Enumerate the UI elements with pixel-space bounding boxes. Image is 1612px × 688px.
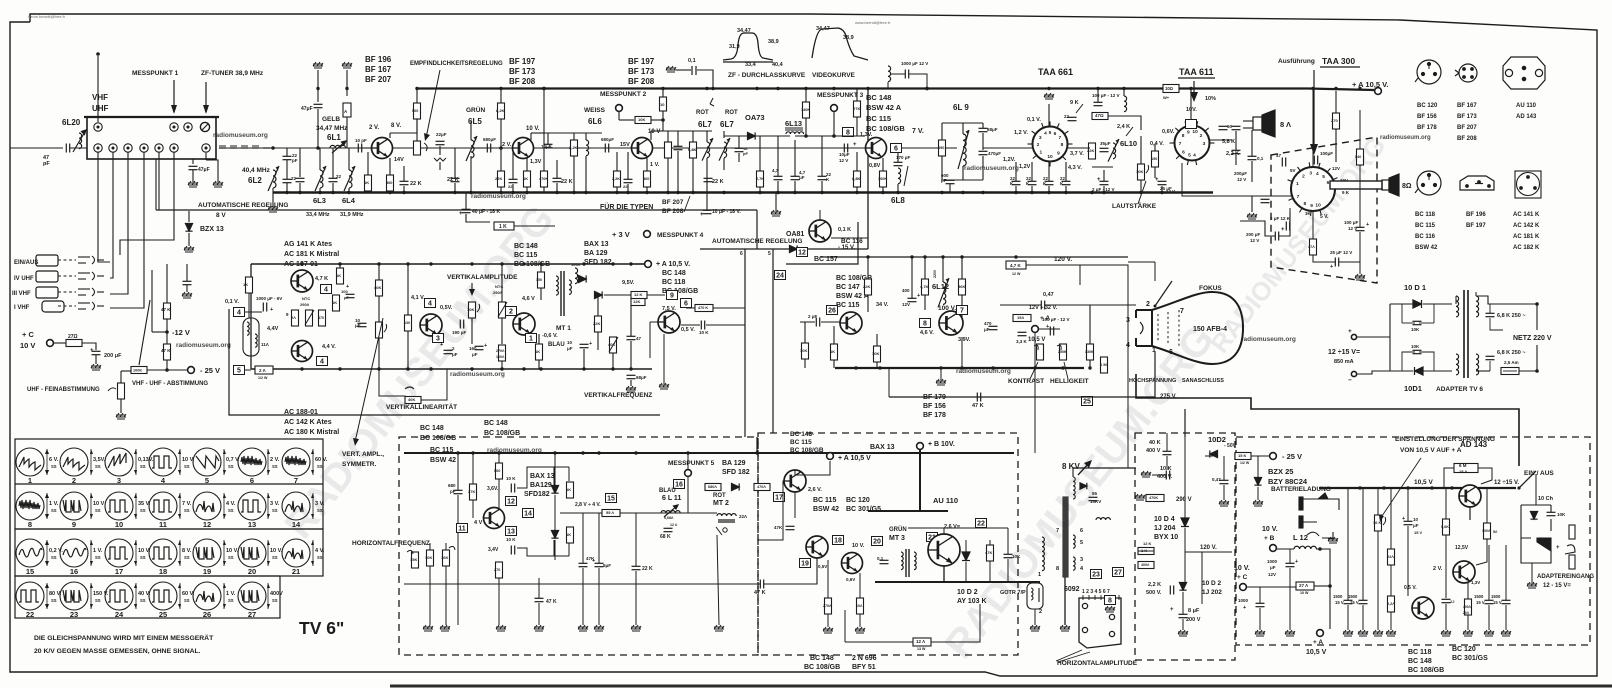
svg-text:560: 560 xyxy=(643,177,649,181)
svg-text:6L 9: 6L 9 xyxy=(953,103,969,112)
svg-text:AC 181 K Mistral: AC 181 K Mistral xyxy=(284,251,339,258)
capacitor 1000uF L12 xyxy=(1286,563,1295,566)
svg-text:0,1: 0,1 xyxy=(688,58,696,64)
arrow 8KV xyxy=(1078,462,1090,475)
svg-text:pF: pF xyxy=(43,161,50,167)
svg-text:-12 V: -12 V xyxy=(172,328,190,337)
svg-text:SS: SS xyxy=(140,464,146,469)
coil 1000uF feed xyxy=(888,66,891,82)
svg-text:SS: SS xyxy=(272,508,278,513)
wire flyback gnd xyxy=(1064,577,1066,625)
svg-text:5Λ: 5Λ xyxy=(1493,530,1498,534)
ground reg a xyxy=(1219,500,1229,506)
wire cC a xyxy=(1259,587,1261,603)
svg-text:100 μF - 12 V: 100 μF - 12 V xyxy=(1092,93,1120,98)
svg-text:+: + xyxy=(589,341,592,347)
svg-text:1500: 1500 xyxy=(1348,594,1358,599)
capacitor 2.2K eht xyxy=(1170,586,1173,595)
wire taa611 r2 xyxy=(1235,131,1237,150)
ground tuning pot xyxy=(116,413,126,419)
resistor 2 ohm vert rail xyxy=(255,366,273,374)
svg-text:18: 18 xyxy=(834,538,842,545)
battery charging contact symbol xyxy=(1299,493,1339,538)
ground hos x583 xyxy=(578,625,588,631)
svg-text:275 V.: 275 V. xyxy=(1160,394,1177,400)
transistor Q13 hos buffer xyxy=(784,470,806,492)
svg-text:BC 115: BC 115 xyxy=(1415,223,1436,229)
svg-text:22: 22 xyxy=(336,174,342,179)
svg-text:100Λ: 100Λ xyxy=(496,355,505,359)
capacitor 100uF taa300 xyxy=(1314,156,1317,165)
wire cap reg b x1506 xyxy=(1505,605,1507,630)
wire 22 reg a xyxy=(1390,488,1392,549)
wire 6l7 b xyxy=(667,158,669,192)
svg-text:L 12: L 12 xyxy=(1293,533,1308,542)
wire taa300 r dn xyxy=(1335,129,1337,162)
svg-text:25 μF 12 V: 25 μF 12 V xyxy=(1330,250,1352,255)
wire f3 xyxy=(332,148,334,178)
wire diode loop t1 xyxy=(553,467,555,485)
svg-text:BC 148: BC 148 xyxy=(1408,658,1432,665)
resistor 10K vo xyxy=(874,346,881,362)
deflection coil socket xyxy=(1079,598,1121,648)
resistor 270 hos xyxy=(496,562,503,578)
svg-text:4: 4 xyxy=(320,359,324,366)
svg-text:10Ω: 10Ω xyxy=(1165,86,1174,91)
svg-text:GRÜN: GRÜN xyxy=(466,105,485,114)
variable coil 6L12 peaking xyxy=(938,278,949,307)
wire 150 b xyxy=(1154,167,1156,178)
wire taa611 r3 xyxy=(1235,155,1237,165)
svg-text:HORIZONTALAMPLITUDE: HORIZONTALAMPLITUDE xyxy=(1057,660,1138,667)
wire 6l5 up xyxy=(470,121,472,140)
svg-text:7 V.: 7 V. xyxy=(182,501,192,507)
svg-text:UHF: UHF xyxy=(92,104,109,113)
wire reg d xyxy=(1223,485,1225,500)
wire 120v drop xyxy=(1079,265,1081,285)
IC U3 TAA300 xyxy=(1288,162,1338,216)
svg-text:BC 118: BC 118 xyxy=(662,279,685,286)
svg-text:400V: 400V xyxy=(270,591,283,597)
svg-text:7: 7 xyxy=(1058,135,1061,141)
coil 100 mt1 xyxy=(575,268,578,284)
wire 6l8 gnd xyxy=(897,184,899,192)
wire hos m d xyxy=(598,568,600,625)
transistor Q6 AC141K vert osc xyxy=(291,270,313,292)
arrow taa300 xyxy=(1313,70,1315,150)
wire xfmr top xyxy=(1475,292,1477,296)
wire taacap2 a xyxy=(1031,162,1033,181)
node mp2 xyxy=(661,118,665,122)
svg-text:10μF: 10μF xyxy=(839,152,850,157)
wire mt1 a xyxy=(540,264,542,272)
capacitor 3.3K contrast xyxy=(1018,332,1027,335)
capacitor 22K det xyxy=(818,176,827,179)
svg-text:7: 7 xyxy=(1056,528,1059,534)
svg-text:+: + xyxy=(917,293,920,299)
wire reg b xyxy=(1251,455,1269,457)
resistor 1.6 q3out xyxy=(665,142,672,158)
svg-text:MT 2: MT 2 xyxy=(713,500,729,507)
wire 27ohm to cap xyxy=(82,343,96,350)
wire 8k2 down xyxy=(500,119,502,148)
wire hos out to lineout xyxy=(758,481,784,540)
wire q3 coll rail xyxy=(651,130,663,132)
resistor 2ohm vert xyxy=(292,310,299,326)
wire c ifa2 xyxy=(454,183,456,192)
wire sec top xyxy=(1455,296,1457,304)
resistor 2.2K q3 xyxy=(614,171,621,187)
switch button I VHF xyxy=(42,301,64,312)
svg-text:10 Ch: 10 Ch xyxy=(1538,496,1554,502)
pin 12 hos xyxy=(506,497,517,506)
svg-text:8: 8 xyxy=(1108,598,1112,605)
pot hook hfreq b xyxy=(449,546,455,550)
wire loop left xyxy=(844,610,846,642)
svg-text:27K: 27K xyxy=(468,489,475,494)
svg-text:BC 115: BC 115 xyxy=(836,302,859,309)
wire vlin2 xyxy=(379,338,405,400)
rail vert bottom xyxy=(251,368,652,370)
terminal messpunkt 2 xyxy=(616,105,623,112)
svg-text:270Λ: 270Λ xyxy=(496,349,505,353)
bus AGC line xyxy=(156,209,757,211)
svg-text:4: 4 xyxy=(1044,131,1047,137)
svg-text:15 V: 15 V xyxy=(1476,600,1485,605)
wire 47k chain xyxy=(166,264,168,303)
svg-text:MT 1: MT 1 xyxy=(556,325,571,332)
svg-text:10: 10 xyxy=(1315,203,1321,209)
svg-text:EMPFINDLICHKEITSREGELUNG: EMPFINDLICHKEITSREGELUNG xyxy=(410,61,503,67)
wire agc vert drop xyxy=(756,210,758,249)
svg-text:8 KV: 8 KV xyxy=(1062,462,1080,471)
chassis hatch TAA661 xyxy=(1044,93,1054,99)
svg-text:100 μF: 100 μF xyxy=(1344,220,1359,225)
wire cC b xyxy=(1259,608,1261,630)
wire det cf xyxy=(821,181,823,192)
resistor 15K contrast xyxy=(1013,315,1031,322)
svg-text:330K: 330K xyxy=(1085,350,1094,354)
svg-text:17: 17 xyxy=(115,567,123,576)
svg-text:BF 197: BF 197 xyxy=(1466,223,1486,229)
rail vert top xyxy=(251,263,634,265)
wire gain cap down xyxy=(439,146,441,155)
wire tuner out stub xyxy=(205,153,207,160)
wire s2 a xyxy=(547,133,549,144)
wire 560top down xyxy=(416,119,418,148)
wire 1k q2 b xyxy=(526,187,528,192)
wire pin4 xyxy=(245,311,262,313)
potentiometer 10K vamp xyxy=(469,302,476,318)
svg-text:BYX 10: BYX 10 xyxy=(1154,534,1178,541)
svg-text:8 μF: 8 μF xyxy=(1188,608,1200,614)
ground 270 lo xyxy=(823,627,833,633)
svg-text:6L10: 6L10 xyxy=(1120,139,1137,148)
wire agc r xyxy=(514,225,555,227)
svg-text:40,4 MHz: 40,4 MHz xyxy=(242,167,271,174)
wire filt2 xyxy=(299,183,301,192)
svg-text:6 L 11: 6 L 11 xyxy=(662,495,681,502)
svg-text:+: + xyxy=(1097,177,1101,183)
svg-text:10 pF: 10 pF xyxy=(355,138,367,143)
svg-text:BF 197: BF 197 xyxy=(509,57,536,66)
svg-text:12 V: 12 V xyxy=(1166,189,1175,194)
wire vlin3 xyxy=(421,369,447,400)
wire spk f xyxy=(1240,221,1275,236)
svg-text:9 K: 9 K xyxy=(1342,190,1350,195)
wire c ifa xyxy=(454,148,456,178)
node a2 xyxy=(316,146,320,150)
wire coilfeed c xyxy=(909,74,927,88)
resistor 560 q3 xyxy=(644,171,651,187)
capacitor coupling spk xyxy=(1248,156,1257,159)
svg-text:560: 560 xyxy=(386,181,392,185)
svg-text:4,6 V.: 4,6 V. xyxy=(920,330,934,336)
wire vo i xyxy=(924,295,926,310)
svg-text:10 D 2: 10 D 2 xyxy=(1202,580,1222,587)
capacitor 470uF contrast xyxy=(989,326,998,329)
arrowhead taa611 xyxy=(1190,92,1198,102)
svg-text:BSW 42 A: BSW 42 A xyxy=(866,103,902,112)
wire agc vert drop2 xyxy=(744,249,746,437)
wire 10d4 c xyxy=(1184,552,1186,582)
wire sec right top xyxy=(1476,296,1537,304)
potentiometer 10K volume xyxy=(1138,164,1145,180)
wire lo top3 xyxy=(1007,528,1009,540)
switch button III VHF xyxy=(36,287,58,298)
capacitor 22uF gain xyxy=(436,141,445,144)
wire cap to gnd xyxy=(95,355,97,364)
wire 25uf b xyxy=(1161,186,1163,192)
waveform 2 oscillogram xyxy=(60,448,106,485)
svg-text:14V: 14V xyxy=(394,157,404,163)
svg-text:15 A: 15 A xyxy=(1459,469,1467,474)
coil EHT filter xyxy=(1096,518,1110,520)
diode 10D2 reg xyxy=(1210,450,1218,457)
resistor 100 reg xyxy=(1484,523,1491,539)
wire hfreq c xyxy=(445,543,447,550)
pot hook contrast xyxy=(1034,345,1038,350)
wire fokus rail xyxy=(1128,261,1155,263)
potentiometer 1K gain xyxy=(414,141,421,155)
resistor 470K q2 xyxy=(541,171,548,187)
svg-text:6: 6 xyxy=(250,476,254,485)
wire 6l13 out xyxy=(795,135,834,137)
resistor 47K lower xyxy=(164,344,171,360)
wire q3 em2 xyxy=(646,187,648,192)
svg-text:AD 143: AD 143 xyxy=(1460,440,1488,449)
wire 6l7coila up xyxy=(706,131,708,142)
svg-text:BF 208: BF 208 xyxy=(662,208,684,215)
terminal +B bottom xyxy=(917,443,924,450)
resistor 470K sync xyxy=(695,305,713,312)
svg-text:60 V.: 60 V. xyxy=(315,457,328,463)
channel switch assembly xyxy=(58,252,110,314)
svg-text:6: 6 xyxy=(1169,349,1173,356)
svg-text:270: 270 xyxy=(1331,118,1338,123)
wire vo h xyxy=(804,359,806,368)
wire sync e xyxy=(681,324,700,326)
capacitor 1500uF reg x1506 xyxy=(1502,600,1511,603)
resistor 560 q1 xyxy=(387,175,394,191)
svg-text:150 V.: 150 V. xyxy=(93,591,109,597)
svg-text:- 15 V.: - 15 V. xyxy=(838,245,855,251)
wire agc cap up xyxy=(186,264,188,281)
svg-text:4,6 V: 4,6 V xyxy=(522,296,535,302)
svg-text:3: 3 xyxy=(1080,557,1083,563)
wire 6l7coilb up xyxy=(723,131,725,138)
wire vert out em xyxy=(538,334,540,344)
wire mains right a xyxy=(1536,304,1538,330)
pointer helligkeit xyxy=(1064,362,1068,379)
transistor Q20 reg driver xyxy=(1412,597,1434,619)
ground 22 reg xyxy=(1386,630,1396,636)
svg-text:290 V: 290 V xyxy=(1176,497,1192,503)
svg-text:BF 167: BF 167 xyxy=(1457,103,1477,109)
terminal +A bottom xyxy=(827,453,834,460)
svg-text:160: 160 xyxy=(469,346,477,351)
wire ntc b xyxy=(501,318,503,344)
svg-text:1 V.: 1 V. xyxy=(650,162,660,168)
resistor 10K vo input xyxy=(802,343,809,359)
wire pot down xyxy=(120,399,122,413)
svg-text:10: 10 xyxy=(1192,129,1198,135)
waveform 3 oscillogram xyxy=(105,448,154,485)
resistor 47 ohm taa xyxy=(1092,113,1108,120)
svg-text:12: 12 xyxy=(798,250,806,257)
svg-text:6: 6 xyxy=(1327,180,1330,186)
wire eht d xyxy=(1182,592,1184,614)
svg-text:5: 5 xyxy=(1188,153,1191,159)
wire taacap4 b xyxy=(1065,186,1067,192)
svg-text:SFD 182: SFD 182 xyxy=(722,469,750,476)
wire 47b up xyxy=(1312,211,1314,239)
svg-text:4: 4 xyxy=(324,287,328,294)
svg-text:25: 25 xyxy=(1083,399,1091,406)
svg-text:KONTRAST: KONTRAST xyxy=(1008,378,1044,385)
wire zener feed xyxy=(159,209,189,211)
wire coilfeed xyxy=(887,82,889,88)
diode OA81 xyxy=(790,245,798,252)
wire 470k down xyxy=(543,187,545,192)
wire xfmr bot xyxy=(250,356,252,369)
wire 120V to eht xyxy=(1128,433,1136,468)
ground BZX13 xyxy=(184,246,194,252)
capacitor 22K hos xyxy=(632,566,641,569)
svg-text:BC 147: BC 147 xyxy=(836,284,860,291)
svg-text:2 V.: 2 V. xyxy=(502,142,512,148)
capacitor 47K hos left xyxy=(535,598,544,601)
wire sync base b xyxy=(649,322,651,358)
wire q13 a xyxy=(794,492,796,518)
wire 2uf b xyxy=(1103,186,1105,192)
wire 22 reg c xyxy=(1390,612,1392,630)
waveform 14 oscillogram xyxy=(282,492,325,529)
transistor Q17 AU110 line output xyxy=(928,534,960,566)
wire vo g xyxy=(804,322,806,343)
arrowhead einstellung xyxy=(1379,515,1384,522)
wire lo top xyxy=(943,528,945,534)
resistor 22K q2 xyxy=(498,171,505,187)
svg-text:3,3 K: 3,3 K xyxy=(1016,339,1028,344)
svg-text:22 K: 22 K xyxy=(642,566,653,572)
svg-text:BC 120: BC 120 xyxy=(1417,103,1438,109)
wire 100K to -25V xyxy=(147,369,187,371)
svg-text:22Λ: 22Λ xyxy=(739,514,747,519)
svg-text:4 V.: 4 V. xyxy=(226,501,236,507)
svg-text:radiomuseum.org: radiomuseum.org xyxy=(176,342,231,349)
svg-text:6L13: 6L13 xyxy=(785,119,802,128)
pin 8 video xyxy=(843,128,854,137)
diagonal pointer vert section xyxy=(355,318,383,442)
ground hos x599 xyxy=(594,625,604,631)
coil 6L8 xyxy=(898,168,901,184)
rail video top xyxy=(820,256,1128,258)
wire q19 b xyxy=(1476,539,1487,565)
wire 6m a xyxy=(1444,468,1454,488)
wire cap reg b x1348 xyxy=(1347,605,1349,630)
svg-text:SS: SS xyxy=(228,464,234,469)
svg-text:EIN/AUS: EIN/AUS xyxy=(14,260,38,266)
svg-text:μF: μF xyxy=(1413,523,1419,528)
wire rect bot xyxy=(1390,370,1413,372)
terminal +A vert xyxy=(645,261,652,268)
wire 6l9 rb xyxy=(941,156,943,180)
svg-text:SS: SS xyxy=(317,508,323,513)
svg-text:+: + xyxy=(700,212,704,218)
resistor 10K vla xyxy=(376,280,383,296)
resistor 40K vlin2 xyxy=(405,397,421,404)
svg-text:470Λ: 470Λ xyxy=(757,485,766,489)
case pinout BF196 trapezoid xyxy=(1460,176,1494,190)
svg-text:6L7: 6L7 xyxy=(720,120,734,129)
svg-text:GRÜN: GRÜN xyxy=(889,526,907,533)
wire hfreq b xyxy=(429,566,431,625)
svg-text:2 Λ: 2 Λ xyxy=(259,368,266,373)
svg-text:10 V.: 10 V. xyxy=(852,543,865,549)
wire 22k s2 a xyxy=(556,160,558,178)
svg-text:2 μF - 12 V: 2 μF - 12 V xyxy=(1092,187,1115,192)
pot slash ntc xyxy=(498,302,507,317)
svg-text:1: 1 xyxy=(1039,150,1042,156)
svg-text:3: 3 xyxy=(1309,171,1312,177)
potentiometer NTC vert xyxy=(499,302,506,318)
svg-text:22 K: 22 K xyxy=(447,177,459,183)
wire q3 c1 xyxy=(627,152,629,179)
svg-text:12V: 12V xyxy=(902,302,910,307)
vertical blocking transformer xyxy=(243,318,259,356)
svg-text:BLAU: BLAU xyxy=(659,488,676,494)
svg-text:47 K: 47 K xyxy=(972,403,984,409)
resistor 10K mp2 xyxy=(635,117,651,124)
svg-text:6L6: 6L6 xyxy=(588,117,602,126)
terminal +B reg xyxy=(1270,545,1277,552)
wire vo e xyxy=(876,334,878,346)
capacitor 10K rect b xyxy=(1413,350,1422,353)
svg-text:3,5V.: 3,5V. xyxy=(93,457,106,463)
svg-text:1K: 1K xyxy=(830,349,835,354)
resistor 27K vd xyxy=(854,101,861,117)
svg-text:1000: 1000 xyxy=(1267,559,1278,564)
wire sec right bot xyxy=(1476,370,1490,372)
wire diode loop b2 xyxy=(568,543,570,556)
svg-text:10KV: 10KV xyxy=(1090,499,1101,504)
svg-text:10 V.: 10 V. xyxy=(1262,526,1278,533)
pin small taa611 xyxy=(1186,120,1197,129)
wire tuner pin3 down xyxy=(110,152,128,294)
wire vert rail to term xyxy=(634,263,644,265)
wire agc left vert xyxy=(155,159,157,210)
